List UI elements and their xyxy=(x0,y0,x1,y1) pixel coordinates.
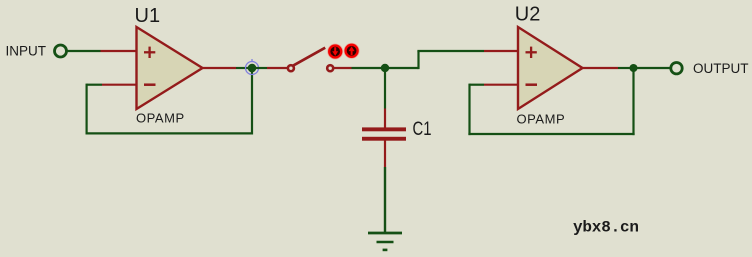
pin U2 inverting input (red part) xyxy=(484,84,518,86)
label U1 reference xyxy=(135,5,161,27)
ground xyxy=(368,233,402,250)
switch SW1 lever xyxy=(293,48,325,66)
label U1 value OPAMP xyxy=(136,111,185,126)
svg-text:U1: U1 xyxy=(135,5,161,27)
wire U2 feedback right vertical to output node xyxy=(632,68,634,135)
wire top horizontal to U2 (green part) xyxy=(417,50,484,52)
node B junction dot xyxy=(381,64,389,72)
wire U2 feedback to inverting pin (green part) xyxy=(470,84,485,86)
wire U1 feedback right vertical to node A xyxy=(251,68,253,135)
wire node C to OUTPUT terminal xyxy=(634,67,670,69)
wire switch to node B (green part) xyxy=(352,67,387,69)
terminal INPUT xyxy=(6,44,67,59)
switch SW1 right contact xyxy=(327,65,333,71)
op-amp U2 body xyxy=(518,27,583,109)
wire node B to corner xyxy=(385,67,419,69)
label C1 reference xyxy=(413,118,432,140)
terminal OUTPUT xyxy=(671,61,749,76)
wire U1 feedback to inverting pin (green part) xyxy=(87,84,102,86)
pin U1 output (red part) xyxy=(203,67,237,69)
pin C1 top (red part) xyxy=(384,109,386,129)
svg-text:OPAMP: OPAMP xyxy=(136,111,185,126)
pin switch right (red part) xyxy=(333,67,351,69)
node A junction dot xyxy=(248,64,257,73)
watermark ybx8.cn xyxy=(573,219,639,237)
pin switch left (red part) xyxy=(267,67,288,69)
pin U1 inverting input (red part) xyxy=(102,84,137,86)
capacitor C1 plates xyxy=(362,127,406,140)
svg-text:ybx8.cn: ybx8.cn xyxy=(573,219,639,237)
wire node B down to capacitor (green part) xyxy=(384,68,386,109)
wire INPUT to U1 noninverting pin (green part) xyxy=(68,50,101,52)
pin U1 noninverting input (red part) xyxy=(101,50,137,52)
pin C1 bottom (red part) xyxy=(384,140,386,167)
label U2 value OPAMP xyxy=(517,112,566,127)
wire corner vertical up xyxy=(417,51,419,69)
pin U2 noninverting input (red part) xyxy=(484,50,518,52)
wire U2 feedback left vertical xyxy=(468,84,470,136)
svg-text:OPAMP: OPAMP xyxy=(517,112,566,127)
svg-text:INPUT: INPUT xyxy=(6,44,47,59)
op-amp U1 body xyxy=(137,27,203,109)
wire capacitor to ground (green part) xyxy=(384,167,386,233)
node C junction dot xyxy=(630,64,638,72)
pin U2 output (red part) xyxy=(583,67,619,69)
label U2 reference xyxy=(515,3,541,25)
wire U1 output to node A (green part) xyxy=(236,67,252,69)
svg-text:OUTPUT: OUTPUT xyxy=(693,61,749,76)
node A selection marker xyxy=(246,59,259,75)
svg-text:U2: U2 xyxy=(515,3,541,25)
switch actuator button down-arrow xyxy=(327,44,343,60)
switch actuator button up-arrow xyxy=(344,43,360,59)
wire U1 feedback bottom horizontal xyxy=(86,132,254,134)
wire node A to switch (green part) xyxy=(252,67,267,69)
wire U1 feedback left vertical xyxy=(85,84,87,135)
switch SW1 left contact xyxy=(288,65,294,71)
wire U2 output to node C (green part) xyxy=(618,67,634,69)
wire U2 feedback bottom horizontal xyxy=(468,133,634,135)
svg-text:C1: C1 xyxy=(413,118,432,140)
